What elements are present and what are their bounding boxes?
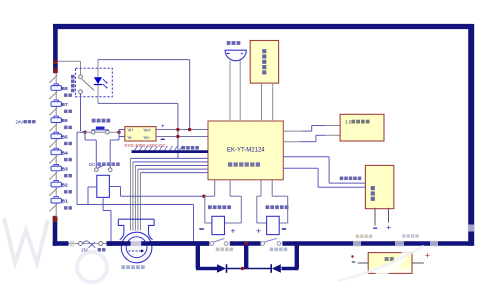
wire Vo- to controller — [156, 136, 208, 138]
svg-text:+: + — [231, 227, 236, 236]
wire node A to relay contact — [84, 132, 86, 140]
wire diode row right — [282, 267, 299, 271]
switch S1 charge — [79, 75, 83, 79]
label charge contact — [270, 248, 274, 252]
node Vo+ junction 2 — [188, 128, 191, 131]
wire switch to node A — [80, 94, 82, 131]
watermark — [4, 218, 48, 263]
label buzzer — [227, 41, 231, 45]
fuse F1 15A — [79, 242, 83, 246]
relay K1 contact — [210, 242, 214, 246]
wire main loop top border (battery+ bus) — [53, 24, 473, 29]
label - output — [161, 138, 165, 140]
battery cell B6 — [49, 108, 72, 130]
node coil-bus junction — [108, 242, 113, 246]
wire node B to DC-DC — [118, 130, 120, 137]
wire Vo+ to controller — [156, 129, 208, 131]
wire diode post center — [244, 242, 248, 269]
wire bus segment middle — [230, 241, 261, 246]
label charge ac line — [340, 177, 344, 181]
charger U4 — [365, 165, 393, 208]
label current sensor — [121, 265, 125, 269]
node battery negative junction — [53, 216, 58, 222]
current sensor T1 outer — [121, 232, 152, 263]
temperature sensor RT1 — [250, 41, 278, 84]
label charge relay — [266, 205, 270, 209]
svg-text:B7: B7 — [62, 102, 68, 108]
label discharge relay — [208, 205, 212, 209]
label discharge contact — [216, 248, 220, 252]
diode D2 — [270, 264, 272, 273]
wire node B to relay contact — [118, 132, 120, 140]
wire bus segment right — [282, 241, 473, 246]
svg-text:B6: B6 — [62, 118, 68, 124]
svg-text:B1: B1 — [62, 199, 68, 205]
label charge switch (vertical) — [71, 75, 75, 79]
bus slash marks — [134, 146, 138, 152]
svg-text:+: + — [386, 223, 391, 232]
node D1 junction — [241, 267, 244, 270]
svg-text:+: + — [161, 123, 165, 130]
wire charger leads — [374, 208, 376, 226]
wire diode post left — [196, 242, 200, 269]
wire controller to K2 right — [271, 180, 273, 196]
wire charger ac 2 — [283, 167, 318, 169]
label bus note 2 — [402, 234, 405, 237]
node A junction — [83, 131, 86, 134]
svg-text:Vi-: Vi- — [128, 135, 134, 140]
wire main loop right border — [468, 24, 474, 246]
wire LED loop right drop — [189, 60, 191, 130]
label jog switch — [92, 119, 96, 123]
wire charger ac 1 — [283, 156, 329, 158]
wire controller to K1 right — [229, 180, 231, 196]
wire controller to K1 left — [214, 180, 216, 196]
node bus-post junction left — [196, 242, 199, 245]
svg-text:+: + — [425, 251, 430, 261]
svg-text:Vi+: Vi+ — [128, 128, 135, 133]
wire fuse to bus — [103, 243, 108, 245]
wire battery positive thick riser — [53, 24, 58, 73]
node junction on riser — [53, 61, 57, 64]
battery cell B7 — [49, 92, 72, 114]
svg-text:DC: DC — [89, 162, 95, 167]
dashed enclosure charge-indicator — [76, 68, 113, 97]
battery cell B1 — [49, 188, 72, 210]
node bus-post junction center — [245, 242, 248, 245]
sensor bell funnel — [118, 219, 154, 240]
wire sense bundle 2 — [133, 161, 208, 163]
wire node A long drop — [77, 131, 85, 133]
wire controller to K2 left — [260, 180, 262, 196]
svg-text:B2: B2 — [62, 183, 68, 189]
pushbutton S2 jog — [91, 130, 95, 134]
svg-text:KYD-100S-12: KYD-100S-12 — [125, 143, 153, 148]
svg-text:B4: B4 — [62, 150, 68, 156]
svg-text:24V: 24V — [16, 119, 24, 124]
wire battery ribbon heavy line — [132, 150, 209, 153]
svg-text:3.5: 3.5 — [345, 119, 352, 124]
svg-text:EK-YT-M2124: EK-YT-M2124 — [227, 148, 265, 154]
battery cell B8 — [49, 75, 72, 97]
LED D3 charge indicator — [97, 60, 99, 78]
wire temp sensor leads — [261, 83, 263, 121]
wire load right lead — [412, 262, 424, 264]
wire bus through sensor — [107, 241, 210, 246]
relay K2 coil — [267, 216, 280, 234]
wire bus to fuse — [69, 243, 79, 245]
wire display data 2 — [283, 141, 300, 143]
svg-text:B3: B3 — [62, 167, 68, 173]
wire LED loop top — [98, 59, 190, 61]
relay K3 contact — [95, 168, 99, 172]
wire sense bundle 3 — [135, 165, 208, 167]
wire buzzer leads — [229, 61, 231, 121]
wire battery bottom slash — [49, 204, 57, 212]
wire bus segment sensor — [107, 241, 210, 246]
node Vo- junction — [176, 135, 179, 138]
wire coil left lead — [88, 186, 97, 188]
svg-text:Vo-: Vo- — [144, 135, 151, 140]
wire battery negative thick drop — [53, 217, 58, 246]
relay K1 coil — [212, 216, 225, 234]
DC-DC module U2 KYD-100S-12 — [125, 127, 156, 141]
svg-text:B8: B8 — [62, 86, 68, 92]
battery cell B2 — [49, 172, 72, 194]
wire D1 to center post — [227, 268, 247, 270]
label charger minus — [373, 227, 377, 229]
wire sense bundle 1 — [130, 157, 208, 159]
battery cell B4 — [49, 140, 72, 162]
svg-text:DC-DC: DC-DC — [152, 143, 166, 148]
load RL1 — [368, 253, 412, 274]
sensor arrow — [129, 250, 142, 252]
wire LED cathode run — [98, 102, 178, 104]
label K1 minus — [199, 228, 204, 230]
wire coil right lead — [109, 186, 120, 188]
node Vo+ junction 1 — [176, 128, 179, 131]
svg-text:+: + — [240, 51, 243, 57]
wire diode row left — [196, 267, 217, 271]
wire diode post right — [295, 242, 299, 269]
node B junction — [117, 131, 120, 134]
controller U1 EK-YT-M2124 — [208, 121, 283, 180]
node relay feed junction — [202, 195, 205, 198]
diode D1 — [217, 264, 226, 273]
wire battery chain — [55, 73, 57, 217]
label K2 minus — [282, 228, 287, 230]
display U3 3.5 inch — [340, 114, 384, 141]
label bus note 1 — [356, 235, 359, 238]
wire bus segment left — [53, 241, 69, 246]
battery cell B3 — [49, 156, 72, 178]
relay K3 coil — [97, 175, 110, 197]
wire pushbutton row — [85, 131, 119, 133]
svg-text:+: + — [256, 227, 261, 236]
wire sense bundle 4 — [138, 168, 208, 170]
battery cell B5 — [49, 124, 72, 146]
label battery ribbon — [182, 146, 186, 150]
wire battery+ to switch — [58, 60, 81, 62]
buzzer LS1 — [225, 50, 246, 61]
svg-text:Vo+: Vo+ — [144, 128, 152, 133]
relay K2 contact — [261, 242, 265, 246]
svg-text:B5: B5 — [62, 134, 68, 140]
wire display data 1 — [283, 130, 302, 132]
wire center post to D2 — [246, 268, 271, 270]
wire load left lead — [358, 262, 369, 264]
wire sense bundle 5 — [140, 172, 208, 174]
current sensor T1 inner — [126, 237, 147, 258]
